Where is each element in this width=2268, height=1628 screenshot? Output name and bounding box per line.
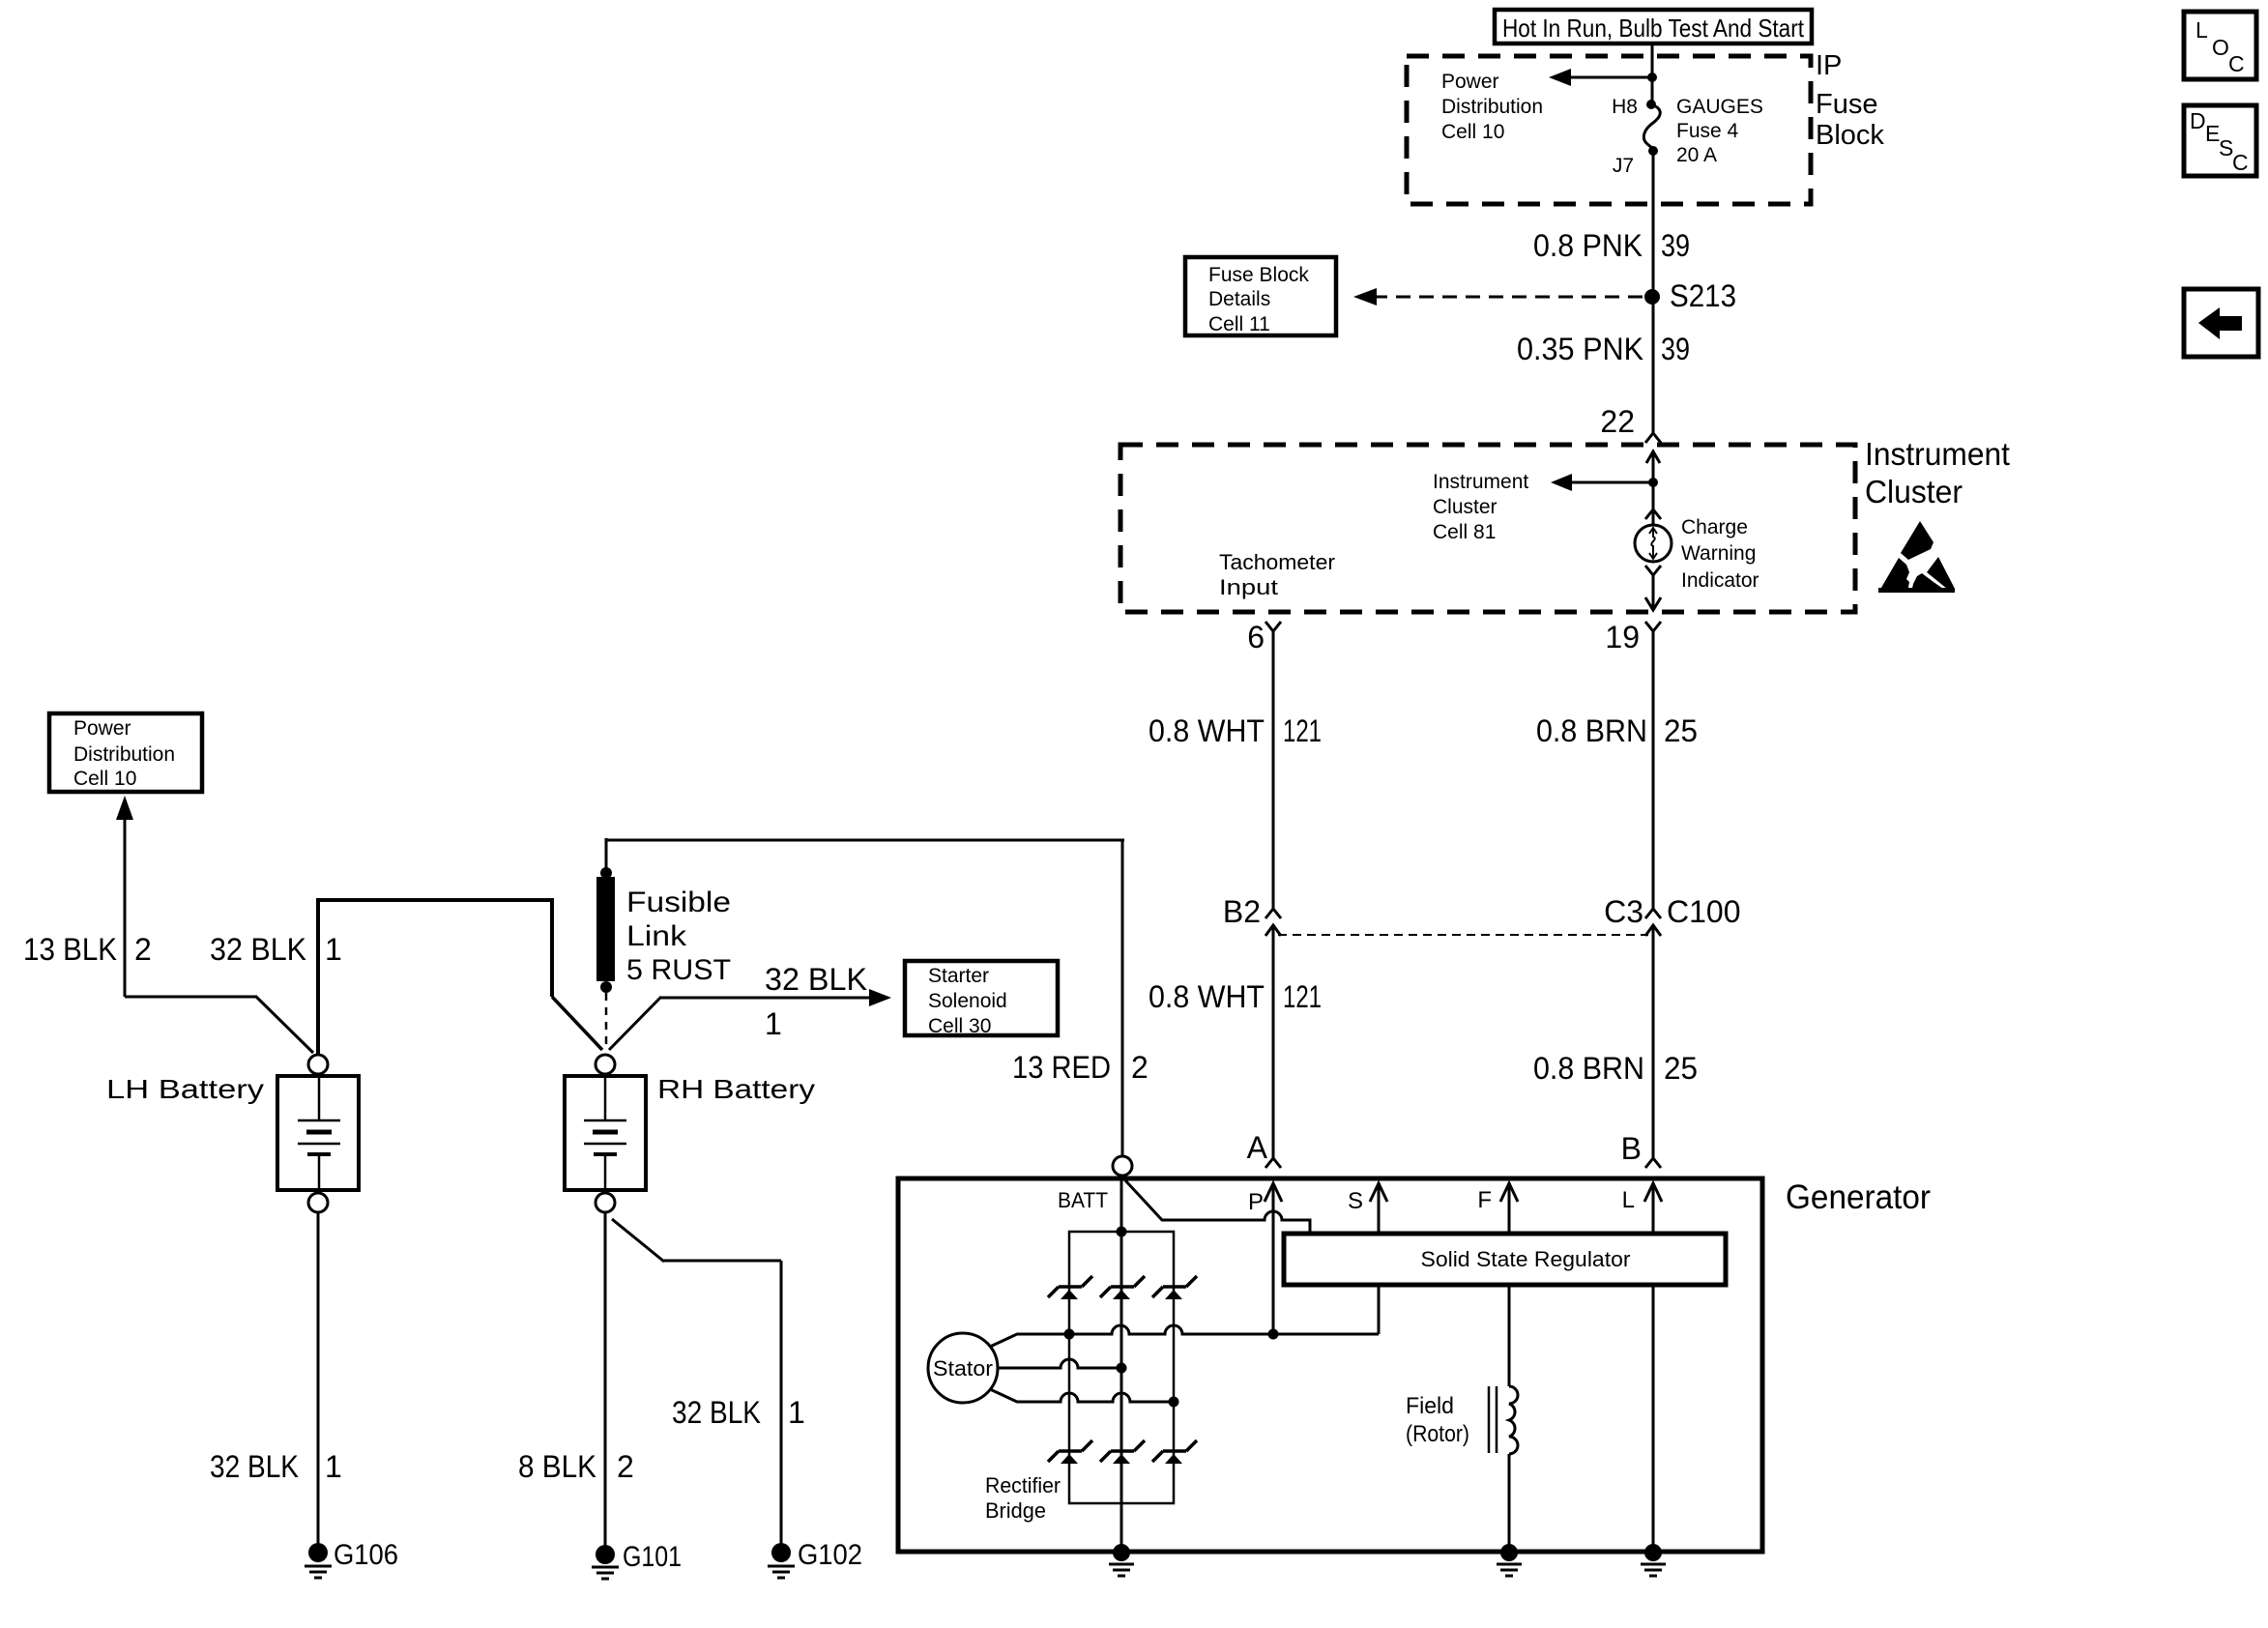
fusible link element: [596, 867, 615, 1050]
junction dot bottom lead: [1169, 1397, 1179, 1408]
terminal P arrow: [1248, 1183, 1282, 1334]
svg-text:Cell 10: Cell 10: [1441, 121, 1504, 143]
svg-text:D: D: [2190, 108, 2206, 133]
terminal S arrow: [1348, 1183, 1387, 1232]
Instrument Cluster title: [1865, 436, 2010, 509]
svg-text:C3: C3: [1604, 894, 1643, 929]
field coil wire to ground: [1508, 1454, 1511, 1547]
svg-text:GAUGES: GAUGES: [1676, 96, 1763, 118]
svg-text:B2: B2: [1223, 894, 1261, 929]
IP Fuse Block dashed box: [1407, 56, 1811, 204]
diode 3 (top right): [1152, 1276, 1197, 1299]
svg-text:IP: IP: [1816, 50, 1842, 81]
Generator box: [898, 1178, 1762, 1552]
svg-text:RH Battery: RH Battery: [657, 1074, 815, 1104]
connector fork above charge indicator: [1645, 509, 1661, 519]
label 13 BLK 2: [23, 932, 152, 967]
svg-text:A: A: [1247, 1130, 1268, 1165]
svg-text:1: 1: [325, 932, 342, 967]
BATT wire to rectifier bridge: [1120, 1176, 1123, 1232]
wire 32 BLK 1 to G102: [612, 1219, 781, 1545]
svg-text:Cluster: Cluster: [1865, 474, 1963, 509]
ground G102: [768, 1543, 795, 1578]
svg-text:B: B: [1621, 1131, 1642, 1166]
Field (Rotor) label: [1406, 1393, 1469, 1447]
wire 0.8 WHT 121 from C100 to generator A: [1272, 980, 1275, 1158]
wire 0.8 BRN 25 from pin 19 to connector C100: [1652, 631, 1655, 909]
svg-text:19: 19: [1605, 620, 1640, 654]
svg-text:Distribution: Distribution: [73, 743, 175, 766]
LH battery terminal circle top: [308, 1055, 328, 1074]
svg-text:20 A: 20 A: [1676, 144, 1717, 166]
label 0.8 PNK 39: [1533, 228, 1690, 263]
stator phase lead middle: [998, 1359, 1121, 1368]
junction dot above charge indicator: [1648, 478, 1658, 487]
LOC legend box: [2184, 12, 2256, 79]
label 0.8 WHT 121 lower: [1149, 979, 1322, 1014]
Charge Warning Indicator text: [1681, 516, 1759, 592]
svg-text:G106: G106: [334, 1539, 398, 1571]
svg-text:F: F: [1477, 1187, 1492, 1213]
svg-text:Link: Link: [626, 920, 687, 952]
arrow to Instrument Cluster Cell 81: [1551, 474, 1653, 491]
svg-text:Block: Block: [1816, 120, 1884, 151]
svg-text:0.8 WHT: 0.8 WHT: [1149, 713, 1265, 748]
diode 1 (top left): [1048, 1276, 1092, 1299]
svg-text:5 RUST: 5 RUST: [626, 954, 731, 986]
svg-text:25: 25: [1664, 713, 1698, 748]
svg-text:2: 2: [134, 932, 152, 967]
navigation arrow box: [2184, 289, 2258, 357]
svg-text:P: P: [1248, 1189, 1264, 1215]
wire from hot box to fuse H8: [1651, 44, 1654, 102]
svg-text:C: C: [2228, 51, 2245, 76]
junction dot stator top lead at left bridge line: [1064, 1329, 1075, 1340]
svg-text:22: 22: [1600, 404, 1635, 439]
LH battery terminal circle bottom: [308, 1193, 328, 1212]
Rectifier Bridge label: [985, 1473, 1061, 1523]
connector fork at pin 19: [1645, 622, 1661, 631]
generator internal ground 2: [1497, 1544, 1522, 1576]
svg-text:L: L: [2195, 17, 2208, 43]
svg-text:Rectifier: Rectifier: [985, 1473, 1061, 1497]
Power Distribution Cell 10 box (top left): [49, 713, 202, 792]
svg-text:Fusible: Fusible: [626, 887, 731, 918]
label 8 BLK 2: [518, 1449, 634, 1484]
svg-text:C: C: [2232, 150, 2249, 175]
svg-text:2: 2: [617, 1449, 634, 1484]
stator phase lead top: [990, 1325, 1379, 1347]
svg-text:1: 1: [325, 1449, 342, 1484]
svg-text:121: 121: [1283, 713, 1322, 748]
svg-text:25: 25: [1664, 1051, 1698, 1086]
svg-text:Cell 11: Cell 11: [1208, 313, 1270, 335]
svg-text:0.35 PNK: 0.35 PNK: [1517, 332, 1643, 366]
svg-text:Input: Input: [1219, 575, 1278, 599]
Fuse Block Details Cell 11 box: [1185, 257, 1336, 335]
diode 6 (bottom right): [1152, 1440, 1197, 1464]
DESC legend box: [2184, 105, 2256, 176]
svg-text:8 BLK: 8 BLK: [518, 1449, 596, 1484]
svg-text:Cluster: Cluster: [1433, 496, 1497, 518]
svg-text:32 BLK: 32 BLK: [672, 1395, 761, 1430]
svg-text:Cell 10: Cell 10: [73, 768, 136, 790]
rectifier bridge frame: [1069, 1232, 1174, 1503]
junction dot at P wire: [1268, 1329, 1279, 1340]
svg-text:Fuse Block: Fuse Block: [1208, 264, 1309, 286]
arrow wire 13 BLK 2 to Power Distribution: [116, 796, 313, 1053]
label 13 RED 2: [1012, 1050, 1149, 1085]
Power Distribution Cell 10 text (in IP fuse block): [1441, 71, 1543, 143]
field rotor coil: [1489, 1386, 1518, 1454]
LH battery: [277, 1076, 359, 1190]
terminal L arrow: [1622, 1183, 1662, 1232]
label 0.8 BRN 25: [1536, 713, 1698, 748]
stator winding circle: [928, 1333, 998, 1403]
svg-text:39: 39: [1661, 228, 1690, 263]
svg-text:13 BLK: 13 BLK: [23, 932, 117, 967]
label 0.8 BRN 25 lower: [1533, 1051, 1698, 1086]
RH battery terminal circle bottom: [596, 1193, 615, 1212]
svg-text:Hot In Run, Bulb Test And Star: Hot In Run, Bulb Test And Start: [1502, 14, 1805, 43]
svg-text:G102: G102: [798, 1539, 862, 1571]
stator phase lead bottom: [990, 1389, 1174, 1402]
svg-text:32 BLK: 32 BLK: [210, 1449, 299, 1484]
svg-text:Solid State Regulator: Solid State Regulator: [1421, 1247, 1631, 1271]
svg-text:Starter: Starter: [928, 965, 989, 987]
RH battery: [565, 1076, 646, 1190]
junction at bridge top: [1117, 1227, 1127, 1237]
Tachometer Input text: [1219, 550, 1335, 599]
ground G106: [305, 1543, 332, 1578]
svg-text:Distribution: Distribution: [1441, 96, 1543, 118]
label 32 BLK 1 (G106): [210, 1449, 342, 1484]
svg-text:0.8 BRN: 0.8 BRN: [1536, 713, 1647, 748]
RH battery terminal circle top: [596, 1055, 615, 1074]
wire from indicator to cluster pin 19 with down arrow: [1645, 575, 1661, 610]
Instrument Cluster dashed box: [1120, 445, 1855, 612]
svg-text:Field: Field: [1406, 1393, 1454, 1419]
wire 0.35 PNK 39 from S213 to cluster: [1652, 297, 1655, 435]
label 32 BLK 1 (G102): [672, 1395, 805, 1430]
wire 8 BLK 2 to G101: [604, 1212, 607, 1547]
wire entering cluster pin 22 with male arrow: [1646, 451, 1660, 525]
svg-text:J7: J7: [1613, 155, 1634, 177]
svg-text:39: 39: [1661, 332, 1690, 366]
svg-text:Solenoid: Solenoid: [928, 990, 1007, 1012]
L wire below regulator to ground: [1652, 1285, 1655, 1547]
connector fork at cluster pin 22: [1645, 433, 1661, 443]
svg-text:Stator: Stator: [933, 1356, 993, 1381]
svg-text:Bridge: Bridge: [985, 1498, 1046, 1523]
svg-text:Instrument: Instrument: [1865, 436, 2010, 472]
Fusible Link 5 RUST label: [626, 887, 731, 986]
Instrument Cluster Cell 81 text: [1433, 471, 1528, 543]
svg-text:S: S: [1348, 1188, 1363, 1214]
label 32 BLK 1: [210, 932, 342, 967]
power label box "Hot In Run, Bulb Test And Start": [1495, 10, 1812, 44]
svg-text:121: 121: [1283, 979, 1322, 1014]
diode 5 (bottom middle): [1100, 1440, 1145, 1464]
svg-text:2: 2: [1131, 1050, 1149, 1085]
connector fork below charge indicator: [1645, 566, 1661, 575]
svg-text:0.8 WHT: 0.8 WHT: [1149, 979, 1265, 1014]
charge warning indicator lamp: [1635, 525, 1672, 562]
dashed connector line C100: [1278, 934, 1648, 936]
fuse value label GAUGES Fuse 4 20 A: [1676, 96, 1763, 166]
svg-text:1: 1: [788, 1395, 805, 1430]
svg-text:C100: C100: [1667, 894, 1741, 929]
svg-text:1: 1: [765, 1006, 782, 1041]
svg-text:32 BLK: 32 BLK: [765, 962, 867, 997]
svg-text:BATT: BATT: [1058, 1188, 1108, 1212]
junction dot in IP fuse block: [1647, 73, 1657, 82]
svg-text:O: O: [2212, 35, 2229, 60]
wire 32 BLK 1 to G106: [317, 1212, 320, 1545]
splice S213: [1644, 289, 1660, 305]
connector fork at pin 6: [1265, 622, 1281, 631]
bridge middle wire to ground: [1120, 1503, 1123, 1547]
svg-text:(Rotor): (Rotor): [1406, 1421, 1469, 1447]
diode 2 (top middle): [1100, 1276, 1145, 1299]
terminal F arrow: [1477, 1183, 1518, 1232]
svg-text:32 BLK: 32 BLK: [210, 932, 306, 967]
svg-text:S213: S213: [1670, 278, 1736, 313]
svg-text:6: 6: [1247, 620, 1265, 654]
F wire below regulator: [1508, 1285, 1511, 1386]
svg-text:Fuse 4: Fuse 4: [1676, 120, 1739, 142]
svg-text:Warning: Warning: [1681, 542, 1756, 565]
generator internal ground 1: [1109, 1544, 1134, 1576]
S wire below regulator: [1378, 1285, 1381, 1334]
svg-text:L: L: [1622, 1187, 1635, 1213]
ESD warning symbol: [1878, 521, 1955, 593]
svg-text:Charge: Charge: [1681, 516, 1748, 538]
svg-text:Tachometer: Tachometer: [1219, 550, 1335, 574]
svg-text:0.8 PNK: 0.8 PNK: [1533, 228, 1643, 263]
svg-text:H8: H8: [1612, 96, 1638, 118]
BATT wire to regulator with bump over P wire: [1125, 1180, 1310, 1234]
svg-text:Indicator: Indicator: [1681, 569, 1759, 592]
svg-text:G101: G101: [623, 1541, 682, 1573]
wire 32 BLK 1 from LH battery to RH battery: [316, 898, 602, 1055]
connector C100 fork at B2: [1265, 909, 1281, 980]
svg-text:Generator: Generator: [1786, 1178, 1931, 1216]
svg-text:Details: Details: [1208, 288, 1270, 310]
fusible link wire from RH battery to 13 RED junction: [605, 838, 1124, 1156]
label 32 BLK / 1: [765, 962, 867, 1041]
svg-text:Power: Power: [73, 717, 131, 740]
connector fork at terminal B: [1645, 1158, 1661, 1168]
diode 4 (bottom left): [1048, 1440, 1092, 1464]
generator internal ground 3: [1641, 1544, 1666, 1576]
fuse F4 GAUGES symbol: [1643, 100, 1660, 156]
label 0.8 WHT 121: [1149, 713, 1322, 748]
svg-text:Cell 81: Cell 81: [1433, 521, 1496, 543]
wire 32 BLK 1 to starter solenoid: [609, 989, 891, 1050]
dashed arrow from S213 to Fuse Block Details: [1353, 288, 1645, 305]
wire 0.8 BRN 25 from C100 to generator B: [1652, 980, 1655, 1158]
connector fork at terminal A: [1265, 1158, 1281, 1168]
IP Fuse Block title: [1816, 50, 1884, 151]
connector C100 fork at C3: [1645, 909, 1661, 980]
svg-text:Instrument: Instrument: [1433, 471, 1528, 493]
wire arrow to Power Distribution Cell 10 (inside IP fuse block): [1549, 69, 1652, 86]
junction dot middle lead: [1117, 1363, 1127, 1374]
wire 0.8 PNK 39 from J7 to S213: [1652, 151, 1655, 297]
BATT terminal circle: [1113, 1156, 1132, 1176]
svg-text:Cell 30: Cell 30: [928, 1015, 991, 1037]
svg-text:0.8 BRN: 0.8 BRN: [1533, 1051, 1644, 1086]
label 0.35 PNK 39: [1517, 332, 1690, 366]
wire 0.8 WHT 121 from pin 6 to connector C100: [1272, 631, 1275, 909]
Starter Solenoid Cell 30 box: [905, 961, 1058, 1037]
ground G101: [592, 1545, 619, 1579]
svg-text:LH Battery: LH Battery: [106, 1074, 264, 1104]
Solid State Regulator box: [1284, 1234, 1726, 1285]
svg-text:Fuse: Fuse: [1816, 89, 1877, 120]
svg-text:Power: Power: [1441, 71, 1499, 93]
svg-text:13 RED: 13 RED: [1012, 1050, 1111, 1085]
